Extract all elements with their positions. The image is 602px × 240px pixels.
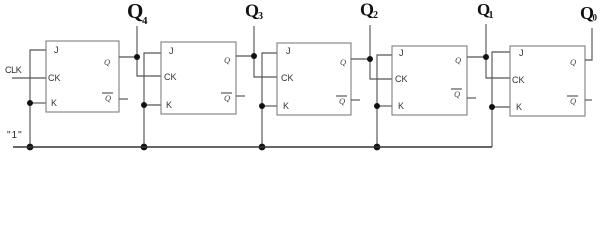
node Q3: [251, 53, 257, 59]
node U2 rail junction: [141, 144, 148, 151]
svg-text:CK: CK: [48, 73, 61, 83]
svg-text:Q: Q: [224, 55, 230, 65]
svg-text:J: J: [399, 48, 404, 58]
label Q4: [127, 0, 148, 27]
node Q1: [483, 54, 489, 60]
wire Q2 label drop to U4.CK: [370, 25, 392, 79]
svg-text:CK: CK: [512, 75, 525, 85]
wire U5.Qbar stub: [585, 99, 592, 101]
node Q4: [134, 54, 140, 60]
wire U1.Qbar stub: [119, 98, 128, 100]
node Q2: [367, 56, 373, 62]
label Q3: [245, 1, 263, 23]
flip-flop U4: [392, 46, 467, 115]
flip-flop U3: [277, 43, 351, 115]
svg-text:0: 0: [593, 13, 598, 23]
svg-text:K: K: [166, 100, 172, 110]
wire J-K tie of U2 to 1-rail: [144, 53, 161, 147]
svg-text:Q: Q: [104, 57, 110, 67]
svg-text:CK: CK: [281, 73, 294, 83]
node U2 K junction: [141, 102, 147, 108]
wire U5.Q up to label Q0: [585, 28, 592, 60]
label Q0: [580, 3, 598, 23]
svg-text:Q: Q: [570, 96, 576, 106]
svg-text:Q: Q: [570, 57, 576, 67]
wire K stub of U3: [262, 105, 277, 107]
svg-text:Q: Q: [245, 1, 259, 21]
svg-text:Q: Q: [360, 0, 374, 20]
wire K stub of U1: [30, 102, 46, 104]
svg-text:Q: Q: [454, 89, 460, 99]
wire U3.Q to node Q2: [351, 58, 370, 60]
flip-flop U1: [46, 41, 119, 112]
label Q2: [360, 0, 378, 21]
svg-text:1: 1: [489, 10, 494, 21]
svg-text:CLK: CLK: [5, 65, 22, 75]
wire J-K tie of U3 to 1-rail: [262, 53, 277, 147]
svg-text:Q: Q: [105, 93, 111, 103]
svg-text:K: K: [283, 101, 289, 111]
wire K stub of U4: [377, 105, 392, 107]
svg-text:Q: Q: [127, 0, 143, 23]
node U1 K junction: [27, 100, 33, 106]
wire K stub of U2: [144, 104, 161, 106]
svg-text:J: J: [286, 46, 291, 56]
svg-text:2: 2: [373, 10, 378, 21]
wire 1-rail: [13, 146, 492, 148]
node U4 rail junction: [374, 144, 381, 151]
svg-text:J: J: [519, 48, 524, 58]
svg-text:K: K: [516, 102, 522, 112]
node U5 K junction: [489, 104, 495, 110]
wire U3.Qbar stub: [351, 99, 360, 101]
wire Q3 label drop to U3.CK: [254, 26, 277, 77]
wire Q1 label drop to U5.CK: [486, 24, 510, 78]
svg-text:Q: Q: [339, 96, 345, 106]
svg-text:Q: Q: [340, 57, 346, 67]
label Q1: [477, 0, 494, 21]
svg-text:Q: Q: [224, 93, 230, 103]
wire Q4 label drop to U2.CK: [137, 26, 161, 76]
flip-flop U5: [510, 46, 585, 116]
svg-text:CK: CK: [395, 74, 408, 84]
svg-text:4: 4: [142, 15, 148, 27]
wire U4.Q to node Q1: [467, 56, 486, 58]
svg-text:K: K: [51, 98, 57, 108]
svg-text:Q: Q: [455, 55, 461, 65]
node U4 K junction: [374, 103, 380, 109]
svg-text:J: J: [169, 46, 174, 56]
node U1 rail junction: [27, 144, 34, 151]
wire U1.Q to node Q4: [119, 56, 137, 58]
wire J-K tie of U5 to 1-rail: [492, 52, 510, 147]
wire U4.Qbar stub: [467, 97, 476, 99]
node U3 rail junction: [259, 144, 266, 151]
node U3 K junction: [259, 103, 265, 109]
wire U2.Q to node Q3: [236, 55, 254, 57]
svg-text:3: 3: [258, 11, 263, 22]
flip-flop U2: [161, 42, 236, 114]
wire U2.Qbar stub: [236, 95, 245, 97]
svg-text:K: K: [398, 101, 404, 111]
wire J-K tie of U1 to 1-rail: [30, 50, 46, 147]
svg-text:"1": "1": [7, 130, 23, 141]
svg-text:CK: CK: [164, 72, 177, 82]
wire CLK input to U1.CK: [12, 77, 46, 79]
svg-text:J: J: [54, 45, 59, 55]
wire K stub of U5: [492, 106, 510, 108]
wire J-K tie of U4 to 1-rail: [377, 55, 392, 147]
